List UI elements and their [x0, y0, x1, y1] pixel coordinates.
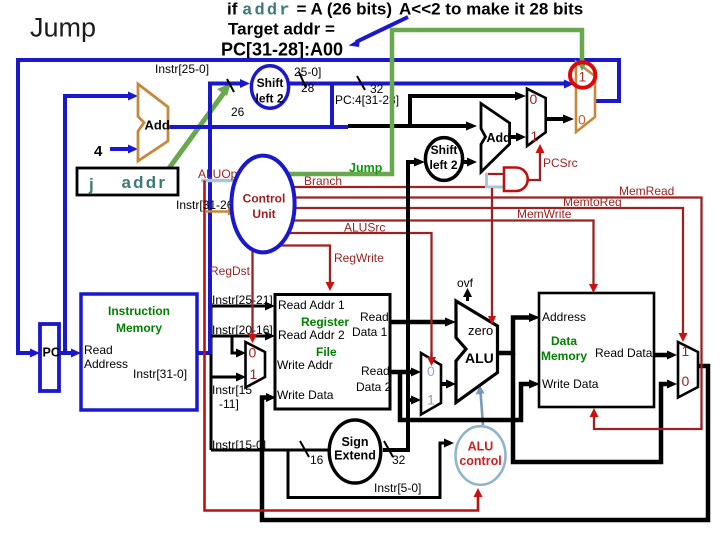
PC register box [40, 324, 59, 391]
wire: Instr[15-11] stub to write mux input 1 [211, 376, 238, 379]
svg-text:Read Addr 2: Read Addr 2 [278, 328, 345, 342]
svg-text:Add: Add [487, 131, 511, 145]
svg-text:Address: Address [542, 310, 586, 324]
svg-text:PCSrc: PCSrc [543, 156, 578, 170]
blue annotation arrow from A&lt;&lt;2 text to PC[31-28]:A00 [349, 17, 409, 47]
slash 26 on Instr[25-0] wire [227, 79, 234, 92]
svg-text:0: 0 [682, 373, 690, 389]
Add (PC+4 adder) [138, 84, 168, 161]
green Jump wire from Control Unit toward jump mux (arrowhead drawn over mux below) [264, 30, 582, 174]
jump mux (orange) [576, 62, 595, 132]
light blue AND gate bottom input [488, 186, 504, 189]
svg-text:16: 16 [310, 453, 324, 467]
svg-text:1: 1 [579, 69, 587, 85]
svg-text:File: File [316, 345, 337, 359]
wire: sign-extend vertical overlay (over control lines) [406, 164, 410, 448]
svg-text:Unit: Unit [252, 207, 275, 221]
svg-text:Instr[31-0]: Instr[31-0] [133, 367, 187, 381]
svg-text:RegDst: RegDst [210, 264, 251, 278]
svg-text:Extend: Extend [334, 449, 376, 463]
svg-text:PC[31-28]:A00: PC[31-28]:A00 [221, 40, 343, 60]
svg-text:1: 1 [250, 366, 258, 382]
wire: sign-extend vertical up to branch Shift left 2 [408, 162, 416, 450]
orange arrow Instr[31-26] into Control Unit [205, 210, 230, 213]
wire: ALU result to Data Memory Address [498, 318, 531, 354]
wire: Add output PC+4 (blue part) [168, 125, 348, 129]
svg-text:1: 1 [427, 392, 435, 408]
svg-text:MemRead: MemRead [619, 184, 674, 198]
svg-text:zero: zero [468, 323, 493, 338]
control: Branch line from Control Unit [264, 186, 487, 188]
wire: Shift left 2 output (28-bit) to jump mux input 1 [289, 82, 566, 86]
wire: Instr[20-16] stub to Read Addr 2 [211, 335, 267, 338]
control: RegDst line to write mux select [251, 245, 253, 335]
control: zero line from AND gate down to ALU zero flag [491, 188, 493, 318]
wire: Instr[20-16] jog down to write mux input 0 [232, 336, 238, 353]
svg-text:28: 28 [301, 81, 315, 95]
control: RegDst arrowhead over write mux select [251, 330, 253, 335]
svg-text:Write Data: Write Data [542, 377, 599, 391]
svg-text:Shift: Shift [431, 143, 458, 157]
wire: Instr[5-0] to ALU control [288, 443, 446, 498]
svg-text:Instr[20-16]: Instr[20-16] [212, 323, 273, 337]
Control Unit ellipse [231, 156, 294, 253]
svg-text:ALUSrc: ALUSrc [344, 221, 385, 235]
slash 32 on jump address wire [357, 76, 365, 90]
svg-text:Write Addr: Write Addr [277, 358, 333, 372]
svg-text:left 2: left 2 [255, 92, 283, 106]
svg-text:Data: Data [551, 334, 577, 348]
wire: Sign Extend output to ALUSrc mux vertical [383, 448, 410, 452]
wire: PC+4 jog up to branch mux input 0 [410, 96, 517, 126]
Add (branch adder) [481, 104, 510, 173]
control: AND gate top input (branch) [486, 173, 504, 175]
svg-text:Register: Register [301, 315, 349, 329]
light blue vertical remnant at AND gate input [485, 173, 488, 188]
svg-text:1: 1 [531, 128, 539, 144]
Shift left 2 (branch) ellipse [425, 138, 462, 181]
wire: Read Data 1 to ALU [390, 320, 448, 325]
svg-text:1: 1 [682, 343, 690, 359]
ALUSrc mux [421, 353, 441, 415]
wire: Instr[25-21] stub to Read Addr 1 [211, 305, 267, 308]
svg-text:MemWrite: MemWrite [517, 207, 572, 221]
svg-text:Data 1: Data 1 [352, 325, 388, 339]
j addr instruction box [77, 168, 178, 195]
svg-text:Read Addr 1: Read Addr 1 [278, 298, 345, 312]
ALU [456, 301, 498, 403]
svg-text:32: 32 [392, 453, 406, 467]
svg-text:Address: Address [84, 357, 128, 371]
svg-text:Instruction: Instruction [108, 304, 170, 318]
wire: Data Memory Read Data to MemtoReg mux input 1 [654, 353, 669, 358]
svg-text:Read: Read [84, 343, 113, 357]
svg-text:Control: Control [243, 192, 286, 206]
svg-text:ALU: ALU [468, 440, 494, 454]
wire: Read Data 2 branch down to Data Memory Write Data [400, 372, 532, 420]
svg-text:Add: Add [145, 118, 170, 133]
svg-text:Instr[25-0]: Instr[25-0] [155, 62, 209, 76]
wire: Instr[15-0] to Sign Extend [211, 449, 330, 452]
Register File box [275, 295, 390, 410]
svg-text:Jump: Jump [30, 13, 96, 43]
AND gate [504, 168, 528, 192]
wire: write-back loop from MemtoReg mux output to Register File Write Data [262, 366, 708, 520]
svg-text:-11]: -11] [219, 397, 239, 411]
Shift left 2 (jump) ellipse [251, 66, 288, 108]
svg-text:control: control [459, 454, 501, 468]
svg-text:ovf: ovf [457, 276, 474, 290]
control: ALUSrc line to ALUSrc mux select [264, 233, 432, 358]
slash 32 after sign extend [384, 441, 393, 457]
svg-text:MemtoReg: MemtoReg [563, 195, 622, 209]
svg-text:left 2: left 2 [429, 158, 457, 172]
svg-text:4: 4 [94, 143, 103, 160]
svg-text:0: 0 [578, 112, 586, 128]
Instruction Memory box [81, 294, 197, 410]
svg-text:Data 2: Data 2 [356, 380, 392, 394]
wire: branch mux output to jump mux input 0 [546, 117, 565, 121]
wire: PC+4 feedback up to Add input [65, 96, 129, 353]
wire: ALU overflow output ovf [466, 294, 469, 301]
control: PCSrc from AND gate output to branch mux select [528, 151, 540, 180]
wire: blue Instr vertical overlay [208, 84, 212, 355]
svg-text:ALUOp: ALUOp [198, 167, 238, 181]
control: RegWrite line to Register File top [270, 246, 330, 284]
wire: ALU result down and right to MemtoReg mux input 0 [513, 353, 669, 462]
control: MemtoReg line to MemtoReg mux select [264, 208, 683, 334]
wire: Read Data 2 to ALUSrc mux input 0 [390, 370, 413, 375]
svg-text:Instr[31-26]: Instr[31-26] [176, 198, 237, 212]
red highlight circle around jump mux input 1 [570, 62, 595, 87]
wire: PC+4 black continuation to branch Add [348, 124, 468, 128]
svg-text:if addr = A (26 bits): if addr = A (26 bits) [227, 0, 392, 21]
slash 16 [300, 441, 309, 457]
green arrow from j addr box to Instr[25-0] wire [167, 90, 226, 171]
branch mux [527, 89, 546, 146]
svg-text:0: 0 [249, 345, 257, 361]
MemtoReg mux [678, 342, 698, 398]
control: ALUOp light blue stub [201, 179, 240, 183]
steel blue arrow ALU control select to ALU [481, 392, 484, 425]
svg-text:Read: Read [361, 364, 390, 378]
wire: instruction bus vertical [210, 303, 213, 450]
svg-text:Write Data: Write Data [277, 388, 334, 402]
wire: sign extend branch into ALUSrc mux input 1 [408, 398, 413, 402]
svg-text:addr: addr [122, 173, 168, 192]
wire: ALUSrc mux output to ALU [441, 382, 448, 386]
svg-text:RegWrite: RegWrite [334, 251, 384, 265]
svg-text:A<<2 to make it 28 bits: A<<2 to make it 28 bits [399, 0, 583, 19]
svg-text:j: j [88, 175, 94, 194]
svg-text:25-0]: 25-0] [294, 65, 321, 79]
control: ALUSrc arrowhead over mux input 0 [430, 352, 432, 358]
control: MemRead line to Data Memory bottom [264, 198, 702, 430]
svg-text:Target addr =: Target addr = [228, 20, 335, 39]
svg-text:PC: PC [43, 346, 60, 360]
svg-text:Instr[15-0]: Instr[15-0] [212, 438, 266, 452]
wire: blue junction from Instr[25-0] wire down to PC+4 wire [330, 84, 334, 128]
wire: constant 4 into Add [110, 147, 129, 151]
wire: branch Add output to branch mux input 1 [510, 135, 518, 139]
svg-text:Instr[5-0]: Instr[5-0] [374, 481, 421, 495]
svg-text:Sign: Sign [341, 435, 368, 449]
svg-text:ALU: ALU [465, 350, 494, 366]
svg-text:0: 0 [427, 363, 435, 379]
svg-text:PC:4[31-28]: PC:4[31-28] [335, 93, 399, 107]
wire: PC output to Instruction Memory Read Address [60, 351, 73, 355]
wire: Instruction Memory output stub and Instr[25-0] up to Shift left 2 [197, 84, 241, 354]
svg-text:26: 26 [231, 105, 245, 119]
slash 28 [299, 72, 306, 88]
write register mux [246, 342, 266, 388]
svg-text:Instr[25-21]: Instr[25-21] [212, 293, 273, 307]
Data Memory box [539, 293, 654, 407]
svg-text:0: 0 [530, 91, 538, 107]
svg-text:Shift: Shift [257, 76, 284, 90]
svg-text:Read: Read [360, 310, 389, 324]
control: ALUOp line down and right to ALU control [205, 181, 479, 511]
wire: branch Shift left 2 output to branch Add [463, 160, 469, 164]
green Jump arrowhead into jump mux select [577, 55, 588, 71]
svg-text:Jump: Jump [349, 161, 383, 175]
control: MemWrite line to Data Memory top [264, 221, 594, 286]
ALU control ellipse [456, 426, 506, 485]
wire: PC feedback loop (jump mux output to PC input) [18, 60, 619, 353]
svg-text:Read Data: Read Data [595, 346, 653, 360]
Sign Extend ellipse [329, 420, 381, 483]
svg-text:Memory: Memory [116, 321, 162, 335]
svg-text:Memory: Memory [541, 349, 587, 363]
